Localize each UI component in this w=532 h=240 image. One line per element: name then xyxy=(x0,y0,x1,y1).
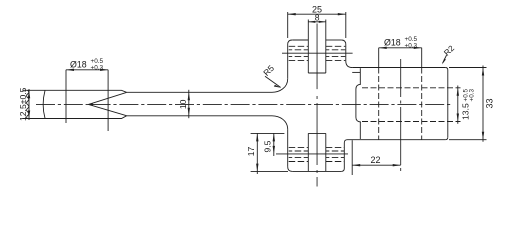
svg-text:17: 17 xyxy=(246,147,256,157)
wire: block left edge upper xyxy=(359,68,361,84)
svg-text:10: 10 xyxy=(178,99,188,109)
wire: upper tab left vertical xyxy=(307,20,309,74)
leader R5 arrow xyxy=(274,85,281,88)
node: fork apex blob xyxy=(87,103,93,106)
dimension Ø18 right: arrows xyxy=(379,47,422,49)
svg-text:+0.3: +0.3 xyxy=(405,42,418,49)
wire: shaft bottom edge xyxy=(127,115,273,117)
dimension 10: arrows xyxy=(188,92,190,116)
hidden line: block hole bottom edge xyxy=(362,121,461,123)
dimension Ø18 left: extension lines xyxy=(66,70,108,131)
hidden line: lower hump row 2 xyxy=(289,150,345,152)
wire: spade top edge with chamfer xyxy=(28,90,127,92)
wire: block bottom-right corner xyxy=(445,137,448,140)
dimension 22: left extension xyxy=(351,140,353,175)
dimension 17: bottom extension xyxy=(251,171,288,173)
svg-text:9.5: 9.5 xyxy=(263,140,273,152)
svg-text:13.5: 13.5 xyxy=(461,103,471,120)
centerline: cross vertical axis xyxy=(316,24,318,187)
svg-text:R5: R5 xyxy=(261,63,276,78)
wire: plateau top right segment xyxy=(326,39,342,41)
dimension 33: dim line xyxy=(482,66,484,142)
leader R2 arrow xyxy=(442,59,446,65)
centerline: main horizontal axis xyxy=(36,103,453,105)
wire: upper tab right vertical xyxy=(325,20,327,74)
svg-text:Ø18: Ø18 xyxy=(70,59,87,69)
dimension 25: extension lines xyxy=(288,12,346,38)
wire: spade left break edge xyxy=(27,90,29,118)
hidden line: lower hump row 3 xyxy=(289,157,345,159)
wire: block right edge xyxy=(447,70,449,137)
dimension 12.5: dim line xyxy=(28,89,30,120)
dimension 10: dim line xyxy=(188,90,190,118)
label 13.5 with tolerance xyxy=(461,88,476,120)
hidden line: block hole left vertical xyxy=(378,68,380,140)
leader R2 xyxy=(443,55,447,63)
hidden line: lower hump hole axis xyxy=(276,153,348,155)
dimension 22: dim line xyxy=(352,164,401,166)
wire: fillet upper hump to block top xyxy=(346,61,352,68)
wire: fork lower line xyxy=(89,104,127,115)
dimension 25: arrows xyxy=(288,13,346,15)
svg-text:8: 8 xyxy=(315,13,320,23)
wire: block left edge lower xyxy=(359,122,361,139)
wire: block bottom edge xyxy=(348,139,446,141)
hidden line: upper hump row 3 xyxy=(289,56,346,58)
leader R5 xyxy=(265,76,281,87)
dimension Ø18 right: extension lines xyxy=(379,48,422,68)
dimension Ø18 left: dim line xyxy=(66,69,108,71)
wire: upper hump top-right corner xyxy=(341,40,346,45)
wire: lower hump bottom-left corner xyxy=(288,167,293,172)
wire: spade bottom edge with chamfer xyxy=(28,116,127,119)
wire: plateau top left segment xyxy=(292,39,308,41)
dimension 13.5: arrows xyxy=(457,88,459,122)
wire: step down to lower hump xyxy=(341,140,347,172)
wire: R5 fillet shaft to upper hump xyxy=(272,79,288,93)
wire: upper hump left vertical xyxy=(287,45,289,79)
dimension 33: extension lines xyxy=(449,68,487,140)
svg-text:R2: R2 xyxy=(442,44,456,58)
centerline: block vertical axis xyxy=(400,59,402,171)
svg-text:+0.3: +0.3 xyxy=(469,88,476,101)
dimension 17: arrows xyxy=(256,133,258,171)
wire: upper hump top-left corner xyxy=(288,40,293,45)
dimension 33: arrows xyxy=(482,68,484,140)
dimension 12.5: extension lines xyxy=(23,90,28,118)
dimension 25: dim line xyxy=(288,13,346,15)
hidden line: block hole top edge xyxy=(362,87,461,89)
dimension 22: arrows xyxy=(352,164,401,166)
wire: step line left of block xyxy=(352,71,360,73)
wire: block top-right corner R2 xyxy=(445,68,448,71)
wire: spade end arc xyxy=(43,91,45,119)
wire: block top edge xyxy=(352,67,445,69)
hidden line: block hole right vertical xyxy=(421,68,423,140)
dimension Ø18 left: arrows xyxy=(66,69,108,71)
wire: lower hump bottom edge xyxy=(292,170,341,172)
wire: upper hump right vertical xyxy=(345,45,347,62)
dimension 17: dim line xyxy=(256,133,258,174)
label Ø18 right xyxy=(384,36,418,49)
hidden line: lower hump row 4 xyxy=(289,161,345,163)
svg-text:33: 33 xyxy=(485,98,495,108)
svg-text:22: 22 xyxy=(371,155,381,165)
wire: lower hump left vertical xyxy=(287,129,289,167)
wire: R5 fillet lower hump to shaft xyxy=(272,116,288,130)
wire: fork upper line xyxy=(89,92,127,104)
wire: neck bracket at block left xyxy=(356,84,361,122)
wire: upper tab bottom xyxy=(308,72,326,74)
svg-text:Ø18: Ø18 xyxy=(384,37,401,47)
dimension 12.5: arrows xyxy=(28,90,30,118)
hidden line: upper hump row 1 xyxy=(289,45,346,47)
dimension 9.5: arrows xyxy=(273,133,275,154)
label Ø18 left xyxy=(70,58,104,71)
hidden line: upper hump row 2 xyxy=(289,49,346,51)
dimension Ø18 right: dim line xyxy=(379,47,422,49)
dimension 17/9.5: shared top extension xyxy=(251,132,285,134)
svg-text:12.5±0.5: 12.5±0.5 xyxy=(18,87,28,121)
hidden line: upper hump hole axis xyxy=(282,52,353,54)
dimension 8: arrows xyxy=(308,21,326,23)
wire: lower tab top edge xyxy=(308,132,326,134)
wire: lower tab right vertical xyxy=(325,133,327,171)
hidden line: lower hump row 1 xyxy=(289,147,345,149)
wire: shaft top edge xyxy=(127,91,273,93)
wire: lower tab left vertical xyxy=(307,133,309,171)
hidden line: upper hump row 4 xyxy=(289,60,346,62)
svg-text:+0.3: +0.3 xyxy=(91,64,104,71)
dimension 9.5: dim line xyxy=(273,133,275,156)
dimension 13.5: dim line xyxy=(457,86,459,124)
dimension 8: dim line xyxy=(308,21,326,23)
